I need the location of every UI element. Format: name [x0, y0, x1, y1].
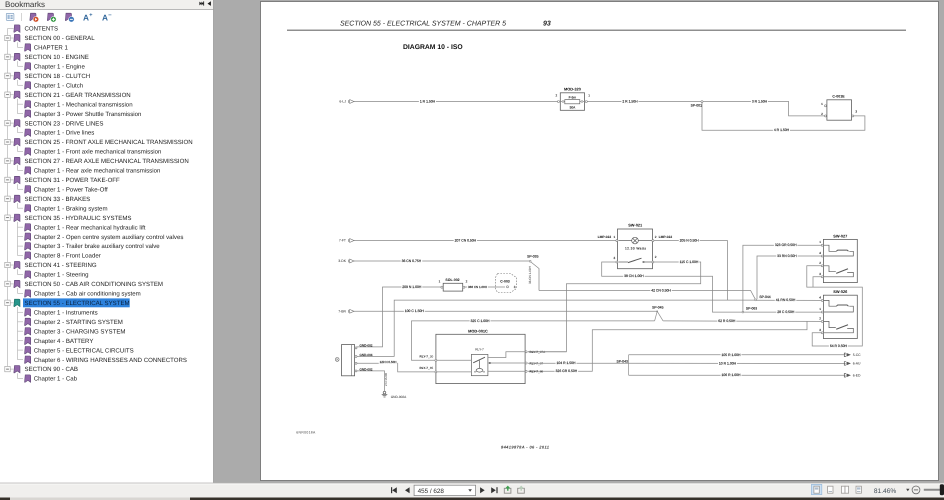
svg-text:207 CN 0.50H: 207 CN 0.50H — [455, 239, 477, 243]
bookmark row: Chapter 6 - WIRING HARNESSES AND CONNECTORS — [25, 356, 31, 363]
svg-text:4 R 1.50H: 4 R 1.50H — [774, 128, 790, 132]
pin 3 SW-026 — [821, 332, 823, 334]
connector 5-CC — [844, 353, 846, 356]
svg-text:64 R 0.50H: 64 R 0.50H — [830, 344, 848, 348]
svg-text:SECTION 23 - DRIVE LINES: SECTION 23 - DRIVE LINES — [25, 120, 104, 127]
bookmark row: SECTION 10 - ENGINE — [5, 54, 10, 59]
bookmark row: SECTION 35 - HYDRAULIC SYSTEMS — [5, 215, 10, 220]
lamp LMP-022 — [619, 237, 652, 244]
svg-text:CONTENTS: CONTENTS — [25, 26, 59, 33]
connector 6-AU — [844, 362, 846, 365]
bookmark row: Chapter 1 - Engine — [25, 63, 31, 70]
svg-text:Chapter 2 - STARTING SYSTEM: Chapter 2 - STARTING SYSTEM — [34, 319, 123, 326]
svg-text:100 C 1.50H: 100 C 1.50H — [405, 309, 425, 313]
svg-text:RLY-7_85: RLY-7_85 — [420, 366, 434, 370]
svg-text:1: 1 — [613, 235, 615, 239]
svg-text:1: 1 — [819, 307, 821, 311]
svg-text:2 N 16.0R: 2 N 16.0R — [384, 373, 388, 386]
svg-text:1: 1 — [439, 280, 441, 284]
svg-text:SECTION 18 - CLUTCH: SECTION 18 - CLUTCH — [25, 73, 91, 80]
svg-text:GND-002A: GND-002A — [391, 395, 407, 399]
pin 4 SW-027 — [821, 255, 823, 257]
bookmark row: Chapter 3 - Trailer brake auxiliary control valve — [25, 243, 31, 250]
ground GND-002A — [382, 391, 388, 397]
wire GND-002 lower — [357, 371, 385, 391]
pin 2 C-001E — [825, 115, 827, 117]
svg-text:326 GR 0.50H: 326 GR 0.50H — [556, 369, 578, 373]
bookmark row: Chapter 1 - Braking system — [25, 205, 31, 212]
bookmark row: Chapter 1 - Cab — [25, 375, 31, 382]
bookmark row: SECTION 41 - STEERING — [5, 262, 10, 267]
svg-text:Chapter 1 - Drive lines: Chapter 1 - Drive lines — [34, 130, 95, 137]
bottom toolbar — [0, 483, 944, 498]
pin RLY-7_85 — [435, 371, 437, 373]
bookmark row: Chapter 5 - ELECTRICAL CIRCUITS — [25, 347, 31, 354]
bookmark row: Chapter 1 - Instruments — [25, 309, 31, 316]
svg-text:C-001E: C-001E — [832, 95, 845, 99]
bookmark row: Chapter 1 - Cab air conditioning system — [25, 290, 31, 297]
svg-text:6NR0018A: 6NR0018A — [296, 431, 316, 435]
bookmark row: SECTION 55 - ELECTRICAL SYSTEM — [5, 300, 10, 305]
bookmark row: SECTION 90 - CAB — [5, 366, 10, 371]
svg-text:+: + — [89, 13, 92, 19]
wire 104 R 1.50H / 10 R 1.00H — [528, 362, 846, 364]
svg-text:2: 2 — [821, 112, 823, 116]
svg-text:MOD-001C: MOD-001C — [468, 328, 488, 333]
svg-text:2: 2 — [819, 261, 821, 265]
svg-text:5-CC: 5-CC — [853, 353, 861, 357]
svg-text:SECTION 25 - FRONT AXLE MECHAN: SECTION 25 - FRONT AXLE MECHANICAL TRANS… — [25, 139, 193, 146]
bookmark row: SECTION 31 - POWER TAKE-OFF — [5, 177, 10, 182]
svg-text:Chapter 3 - CHARGING SYSTEM: Chapter 3 - CHARGING SYSTEM — [34, 328, 126, 335]
pin 3 SW-021 — [616, 261, 618, 263]
svg-text:42 CN 0.50H: 42 CN 0.50H — [651, 288, 671, 292]
connector C-001E — [827, 100, 852, 120]
svg-text:RLY-7_86: RLY-7_86 — [530, 370, 544, 374]
svg-text:93: 93 — [543, 21, 551, 28]
SW-026 lower contact — [823, 321, 853, 332]
splice SP-043 — [628, 355, 630, 376]
svg-text:3 R 1.50H: 3 R 1.50H — [752, 100, 768, 104]
pin 3 C-003 — [507, 286, 509, 288]
gnd block pins — [355, 347, 357, 349]
pin 1 SW-021 lamp — [616, 240, 618, 242]
svg-text:Chapter 3 - Trailer brake auxi: Chapter 3 - Trailer brake auxiliary cont… — [34, 243, 161, 250]
svg-text:SECTION 33 - BRAKES: SECTION 33 - BRAKES — [25, 196, 91, 203]
pin 2 SW-021 switch — [652, 261, 654, 263]
svg-text:Chapter 1 - Cab air conditioni: Chapter 1 - Cab air conditioning system — [34, 291, 141, 298]
wire 33 RN 0.50H — [757, 256, 822, 299]
wire 209 N 1.00H — [357, 287, 441, 347]
wire 207 CN 0.50H — [354, 240, 616, 242]
splice SP-044 — [755, 299, 757, 301]
svg-text:Chapter 1 - Rear mechanical hy: Chapter 1 - Rear mechanical hydraulic li… — [34, 224, 146, 231]
white schematic page — [261, 2, 939, 481]
wire 1 R 1.50H — [354, 101, 559, 103]
svg-text:36 CN 0.75H: 36 CN 0.75H — [402, 259, 422, 263]
svg-text:12.30 Watts: 12.30 Watts — [625, 247, 646, 251]
svg-text:36 CN 1.00H: 36 CN 1.00H — [528, 266, 532, 284]
svg-text:Chapter 8 - Front Loader: Chapter 8 - Front Loader — [34, 253, 101, 260]
svg-text:3: 3 — [819, 272, 821, 276]
svg-text:SECTION 31 - POWER TAKE-OFF: SECTION 31 - POWER TAKE-OFF — [25, 177, 121, 184]
svg-text:RLY-7_30: RLY-7_30 — [420, 355, 434, 359]
lamp-switch unit SW-021 — [618, 229, 653, 269]
wire 106 R 1.00H — [629, 374, 846, 376]
svg-text:Chapter 1 - Front axle mechani: Chapter 1 - Front axle mechanical transm… — [34, 149, 162, 156]
pin 2 SW-027 — [821, 265, 823, 267]
wire 38 CN 1.00H — [602, 262, 743, 312]
svg-text:62 R 0.50H: 62 R 0.50H — [718, 319, 736, 323]
bookmark row: SECTION 33 - BRAKES — [5, 196, 10, 201]
pin RLY-7_87A — [525, 351, 527, 353]
svg-text:205 N 0.50H: 205 N 0.50H — [680, 239, 700, 243]
pin RLY-7_87 — [525, 362, 527, 364]
connector 6-ED — [844, 374, 846, 377]
wire 41 RN 0.50H — [757, 299, 823, 301]
switch SW-027 — [823, 239, 857, 282]
svg-text:Chapter 1 - Steering: Chapter 1 - Steering — [34, 272, 89, 279]
svg-text:6-AU: 6-AU — [853, 362, 861, 366]
svg-text:SW-026: SW-026 — [833, 289, 848, 294]
svg-text:7-BR: 7-BR — [338, 310, 346, 314]
RLY-7 internal links — [436, 359, 472, 361]
splice SP-063 — [742, 311, 744, 313]
relay module MOD-001C — [436, 334, 525, 383]
panel toolbar — [6, 13, 21, 21]
header rule — [287, 29, 906, 31]
svg-text:CHAPTER 1: CHAPTER 1 — [34, 45, 69, 52]
svg-text:6-LJ: 6-LJ — [339, 100, 346, 104]
svg-text:209 N 1.00H: 209 N 1.00H — [402, 285, 422, 289]
solenoid SOL-002 — [443, 283, 463, 291]
bookmark row: Chapter 1 - Drive lines — [25, 129, 31, 136]
pin 2 SW-021 lamp — [652, 240, 654, 242]
svg-text:Chapter 1 - Braking system: Chapter 1 - Braking system — [34, 205, 108, 212]
svg-text:SP-063: SP-063 — [746, 306, 757, 310]
svg-text:SECTION 21 - GEAR TRANSMISSION: SECTION 21 - GEAR TRANSMISSION — [25, 92, 131, 99]
pin 1 C-001E — [825, 105, 827, 107]
view mode icons — [811, 484, 821, 494]
svg-text:84419878A - 06 - 2011: 84419878A - 06 - 2011 — [501, 444, 550, 449]
bookmark row: SECTION 50 - CAB AIR CONDITIONING SYSTEM — [5, 281, 10, 286]
svg-text:SW-021: SW-021 — [628, 222, 643, 227]
bookmark row: SECTION 18 - CLUTCH — [5, 73, 10, 78]
svg-text:3: 3 — [855, 109, 857, 113]
bookmark row: SECTION 21 - GEAR TRANSMISSION — [5, 92, 10, 97]
svg-text:SECTION 35 - HYDRAULIC SYSTEMS: SECTION 35 - HYDRAULIC SYSTEMS — [25, 215, 132, 222]
svg-text:Chapter 1 - Instruments: Chapter 1 - Instruments — [34, 309, 98, 316]
svg-text:SOL-002: SOL-002 — [445, 278, 459, 282]
svg-text:Chapter 1 - Clutch: Chapter 1 - Clutch — [34, 82, 83, 89]
bottom strip — [0, 498, 944, 500]
svg-text:388 CN 1.00H: 388 CN 1.00H — [468, 285, 487, 289]
bookmark row: SECTION 00 - GENERAL — [5, 35, 10, 40]
svg-text:Chapter 5 - ELECTRICAL CIRCUIT: Chapter 5 - ELECTRICAL CIRCUITS — [34, 347, 134, 354]
fuse module MOD-320 — [560, 93, 584, 111]
svg-text:SECTION 41 - STEERING: SECTION 41 - STEERING — [25, 262, 97, 269]
svg-text:28 C 0.50H: 28 C 0.50H — [777, 310, 795, 314]
svg-text:105 R 1.00H: 105 R 1.00H — [721, 353, 741, 357]
pin 2 SOL-002 — [463, 286, 465, 288]
bookmarks panel — [0, 0, 214, 483]
SW-026 upper contact — [823, 300, 853, 312]
bookmark row: Chapter 1 - Steering — [25, 271, 31, 278]
bookmark row: Chapter 3 - Power Shuttle Transmission — [25, 110, 31, 117]
svg-text:SECTION 50 - CAB AIR CONDITION: SECTION 50 - CAB AIR CONDITIONING SYSTEM — [25, 281, 163, 288]
wire 388 CN 1.00H — [465, 286, 505, 288]
svg-text:2: 2 — [466, 280, 468, 284]
page number box — [414, 485, 476, 495]
pin 1 SOL-002 — [441, 286, 443, 288]
wire SW-027 pin2 to SW-026 pin3 (64 R 0.50H) — [807, 266, 863, 346]
svg-text:10 R 1.00H: 10 R 1.00H — [719, 361, 737, 365]
wire 42 CN 0.50H — [539, 291, 756, 300]
bookmark row: Chapter 2 - Open centre system auxiliary control valves — [25, 233, 31, 240]
svg-text:1: 1 — [821, 102, 823, 106]
svg-text:2 R 1.50H: 2 R 1.50H — [622, 100, 638, 104]
pin RLY-7_30 — [435, 359, 437, 361]
bookmark row: SECTION 23 - DRIVE LINES — [5, 120, 10, 125]
svg-text:50A: 50A — [570, 106, 577, 110]
pin 1 SW-026 — [821, 311, 823, 313]
svg-text:Chapter 6 - WIRING HARNESSES A: Chapter 6 - WIRING HARNESSES AND CONNECT… — [34, 357, 187, 364]
wire 115 C 1.00H — [528, 262, 701, 352]
svg-text:SECTION 00 - GENERAL: SECTION 00 - GENERAL — [25, 35, 96, 42]
bookmark row: CHAPTER 1 — [25, 44, 31, 51]
wire 2 R 1.50H — [586, 101, 702, 103]
panel header icons — [199, 1, 211, 6]
svg-text:106 R 1.00H: 106 R 1.00H — [721, 373, 741, 377]
svg-text:LMP-022: LMP-022 — [659, 235, 673, 239]
pin 1 MOD-320 — [585, 101, 587, 103]
pin 2 SW-026 — [821, 320, 823, 322]
svg-text:41 RN 0.50H: 41 RN 0.50H — [776, 298, 796, 302]
wire 323 GR 0.50H — [743, 245, 822, 311]
svg-text:1 R 1.50H: 1 R 1.50H — [420, 100, 436, 104]
svg-text:SECTION 27 - REAR AXLE MECHANI: SECTION 27 - REAR AXLE MECHANICAL TRANSM… — [25, 158, 189, 165]
splice SP-001 — [701, 101, 703, 103]
svg-text:7-FT: 7-FT — [339, 239, 346, 243]
wire 3 R 1.50H — [702, 102, 825, 116]
svg-text:Bookmarks: Bookmarks — [5, 0, 45, 9]
wire 62 R 0.50H — [663, 320, 822, 323]
bookmark row: Chapter 8 - Front Loader — [25, 252, 31, 259]
svg-text:RLY-7: RLY-7 — [475, 348, 484, 352]
ground connector block — [342, 345, 355, 376]
svg-text:Chapter 1 - Rear axle mechanic: Chapter 1 - Rear axle mechanical transmi… — [34, 168, 161, 175]
ground stud — [335, 358, 339, 362]
switch contact SW-021 — [619, 258, 652, 262]
svg-text:115 C 1.00H: 115 C 1.00H — [680, 260, 699, 264]
wire 28 C 0.50H — [744, 311, 822, 313]
pin 3 C-001E — [852, 115, 854, 117]
svg-text:GND-004: GND-004 — [359, 353, 372, 357]
svg-text:3: 3 — [819, 328, 821, 332]
bookmark row: Chapter 4 - BATTERY — [25, 337, 31, 344]
svg-text:A: A — [102, 12, 108, 22]
prev/next view icons — [504, 488, 524, 493]
svg-text:SECTION 55 - ELECTRICAL SYSTEM: SECTION 55 - ELECTRICAL SYSTEM — [25, 300, 130, 307]
wire SW-027 pin3 stub — [813, 277, 822, 287]
wire 326 GR 0.50H — [528, 321, 807, 371]
svg-text:Chapter 3 - Power Shuttle Tran: Chapter 3 - Power Shuttle Transmission — [34, 111, 142, 118]
svg-text:Chapter 2 - Open centre system: Chapter 2 - Open centre system auxiliary… — [34, 234, 184, 241]
svg-text:C-003: C-003 — [500, 279, 510, 283]
wire 105 R 1.00H — [629, 354, 846, 356]
pin 3 SW-027 — [821, 276, 823, 278]
svg-text:Chapter 4 - BATTERY: Chapter 4 - BATTERY — [34, 338, 94, 345]
svg-text:SP-045: SP-045 — [652, 305, 663, 309]
bookmark row: Chapter 1 - Rear axle mechanical transmission — [25, 167, 31, 174]
bookmark row: CONTENTS — [14, 25, 20, 32]
wire 36 CN 0.75H — [354, 260, 530, 262]
bookmark row: Chapter 1 - Rear mechanical hydraulic lift — [25, 224, 31, 231]
svg-text:1: 1 — [819, 240, 821, 244]
wire 100 C 1.50H — [354, 310, 657, 312]
relay RLY-7 — [471, 354, 488, 375]
svg-text:4: 4 — [819, 251, 821, 255]
pin RLY-7_86 — [525, 370, 527, 372]
svg-text:SECTION 55 - ELECTRICAL SYSTEM: SECTION 55 - ELECTRICAL SYSTEM - CHAPTER… — [340, 21, 506, 28]
wire RLY-7_87A out — [528, 351, 566, 353]
wire GND-004 to SP-044 — [357, 300, 756, 356]
tree lines — [8, 29, 24, 379]
SW-027 upper contact — [823, 245, 853, 256]
svg-text:325 C 1.00H: 325 C 1.00H — [470, 319, 490, 323]
svg-text:4: 4 — [819, 295, 821, 299]
svg-text:A: A — [83, 12, 89, 22]
svg-text:GND-002: GND-002 — [359, 343, 372, 347]
svg-text:SECTION 90 - CAB: SECTION 90 - CAB — [25, 366, 79, 373]
bookmark row: Chapter 1 - Clutch — [25, 82, 31, 89]
bookmark row: Chapter 1 - Front axle mechanical transmission — [25, 148, 31, 155]
svg-text:RLY-7_87A: RLY-7_87A — [530, 350, 547, 354]
bookmark row: Chapter 3 - CHARGING SYSTEM — [25, 328, 31, 335]
svg-text:3-DK: 3-DK — [338, 259, 346, 263]
svg-text:323 GR 0.50H: 323 GR 0.50H — [775, 243, 797, 247]
SW-027 lower contact — [823, 266, 853, 277]
svg-text:Chapter 1 - Cab: Chapter 1 - Cab — [34, 376, 78, 383]
pin 2 MOD-320 — [558, 101, 560, 103]
pin 1 SW-027 — [821, 244, 823, 246]
svg-text:6-ED: 6-ED — [853, 374, 861, 378]
svg-text:455 / 628: 455 / 628 — [418, 488, 445, 495]
svg-text:3: 3 — [613, 256, 615, 260]
svg-text:Chapter 1 - Power Take-Off: Chapter 1 - Power Take-Off — [34, 187, 108, 194]
wire 4 R 1.50H — [702, 102, 865, 131]
svg-text:81.46%: 81.46% — [874, 488, 897, 495]
fuse element 50A — [565, 100, 580, 104]
svg-text:2: 2 — [655, 235, 657, 239]
svg-text:SP-043: SP-043 — [617, 359, 628, 363]
svg-text:38 CN 1.00H: 38 CN 1.00H — [624, 274, 644, 278]
wire 205 N 0.50H — [654, 241, 728, 300]
svg-text:F-5m: F-5m — [569, 95, 577, 99]
svg-text:Chapter 1 - Mechanical transmi: Chapter 1 - Mechanical transmission — [34, 101, 133, 108]
bookmark row: Chapter 1 - Mechanical transmission — [25, 101, 31, 108]
svg-text:1: 1 — [588, 94, 590, 98]
pin 4 SW-026 — [821, 299, 823, 301]
splice SP-045 — [656, 311, 658, 313]
connector C-003 (dashed) — [496, 274, 517, 293]
wire 36 CN 1.00H vertical — [531, 262, 539, 291]
svg-text:SW-027: SW-027 — [833, 233, 847, 238]
svg-text:LMP-022: LMP-022 — [598, 235, 612, 239]
selection highlight — [23, 298, 130, 307]
wire 129 N 0.50H — [357, 363, 435, 372]
svg-text:2: 2 — [655, 255, 657, 259]
wire 325 C 1.00H — [412, 321, 655, 360]
bookmark row: Chapter 2 - STARTING SYSTEM — [25, 318, 31, 325]
bookmark row: Chapter 1 - Power Take-Off — [25, 186, 31, 193]
bookmark row: SECTION 27 - REAR AXLE MECHANICAL TRANSMISSION — [5, 158, 10, 163]
svg-text:SECTION 10 - ENGINE: SECTION 10 - ENGINE — [25, 54, 89, 61]
svg-text:GND-002: GND-002 — [359, 367, 372, 371]
svg-text:DIAGRAM 10 - ISO: DIAGRAM 10 - ISO — [403, 44, 463, 51]
svg-text:2: 2 — [819, 316, 821, 320]
svg-text:SP-044: SP-044 — [759, 295, 770, 299]
svg-text:SP-035: SP-035 — [527, 255, 538, 259]
svg-text:104 R 1.50H: 104 R 1.50H — [556, 361, 576, 365]
svg-text:3: 3 — [514, 285, 516, 289]
switch SW-026 — [823, 295, 857, 338]
svg-text:SP-001: SP-001 — [691, 103, 702, 107]
splice SP-035 — [529, 260, 531, 262]
svg-text:33 RN 0.50H: 33 RN 0.50H — [777, 254, 797, 258]
svg-text:MOD-320: MOD-320 — [564, 87, 581, 92]
svg-text:2: 2 — [555, 94, 557, 98]
svg-text:129 N 0.50H: 129 N 0.50H — [380, 360, 397, 364]
bookmark row: SECTION 25 - FRONT AXLE MECHANICAL TRANSMISSION — [5, 139, 10, 144]
svg-text:Chapter 1 - Engine: Chapter 1 - Engine — [34, 64, 86, 71]
